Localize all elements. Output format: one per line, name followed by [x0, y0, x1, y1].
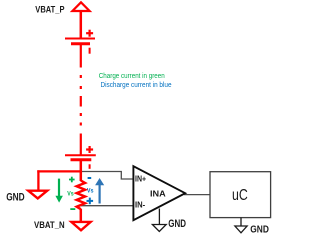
annotation blue plus (discharge polarity bottom): [87, 198, 94, 205]
svg-text:Charge current in green: Charge current in green: [99, 71, 165, 80]
power flag VBAT_N (red down arrow): [71, 222, 90, 230]
current arrow discharge (blue, up): [95, 178, 104, 204]
wire VBAT_P arrow to battery BT1: [80, 11, 83, 38]
op-amp U1 INA (triangle): [133, 166, 185, 220]
svg-text:Vs: Vs: [67, 191, 74, 198]
wire BT2 to junction: [80, 161, 83, 173]
node VBAT_P label: [35, 5, 64, 15]
wire IN- (resistor bottom to INA IN-): [81, 205, 134, 207]
annotation green minus (charge polarity bottom): [70, 208, 75, 210]
wire IN+ (resistor top to INA IN+): [81, 172, 134, 180]
battery BT1 (top cell): [65, 30, 95, 54]
text GND (left): [6, 191, 25, 203]
svg-text:uC: uC: [232, 187, 248, 204]
battery BT2 (bottom cell): [65, 146, 96, 169]
annotation blue minus (discharge polarity top): [88, 177, 92, 179]
svg-text:VBAT_N: VBAT_N: [34, 220, 65, 230]
svg-text:Vs: Vs: [87, 187, 94, 194]
wire INA output to uC: [184, 194, 210, 196]
pin label IN+: [135, 174, 146, 183]
annotation: charge current note (green): [99, 71, 165, 80]
node VBAT_N label: [34, 220, 65, 230]
text GND (uC): [250, 225, 269, 236]
svg-text:GND: GND: [6, 191, 25, 203]
svg-text:GND: GND: [250, 225, 269, 236]
pin label IN-: [135, 201, 146, 210]
annotation green Vs label: [67, 191, 74, 198]
svg-text:IN-: IN-: [135, 201, 146, 210]
svg-text:VBAT_P: VBAT_P: [35, 5, 64, 15]
ground (uC, black): [235, 218, 247, 233]
power flag VBAT_P arrow: [72, 2, 89, 11]
svg-text:IN+: IN+: [135, 174, 146, 183]
uC label: [232, 187, 248, 204]
annotation blue Vs label: [87, 187, 94, 194]
annotation green plus (charge polarity top): [69, 177, 75, 183]
wire (dotted battery-stack continuation): [80, 45, 82, 155]
current arrow charge (green, down): [55, 179, 63, 203]
svg-text:GND: GND: [168, 218, 186, 230]
annotation: discharge current note (blue): [101, 80, 172, 89]
ground (INA, black): [152, 209, 166, 232]
text GND (INA): [168, 218, 186, 230]
svg-text:INA: INA: [150, 190, 166, 199]
resistor Rs (shunt): [77, 171, 86, 222]
svg-text:Discharge current in blue: Discharge current in blue: [101, 80, 172, 89]
uC box: [210, 172, 271, 218]
component label INA: [150, 190, 166, 199]
ground GND (red power flag): [28, 191, 47, 199]
wire junction to GND (red, left): [37, 170, 82, 190]
